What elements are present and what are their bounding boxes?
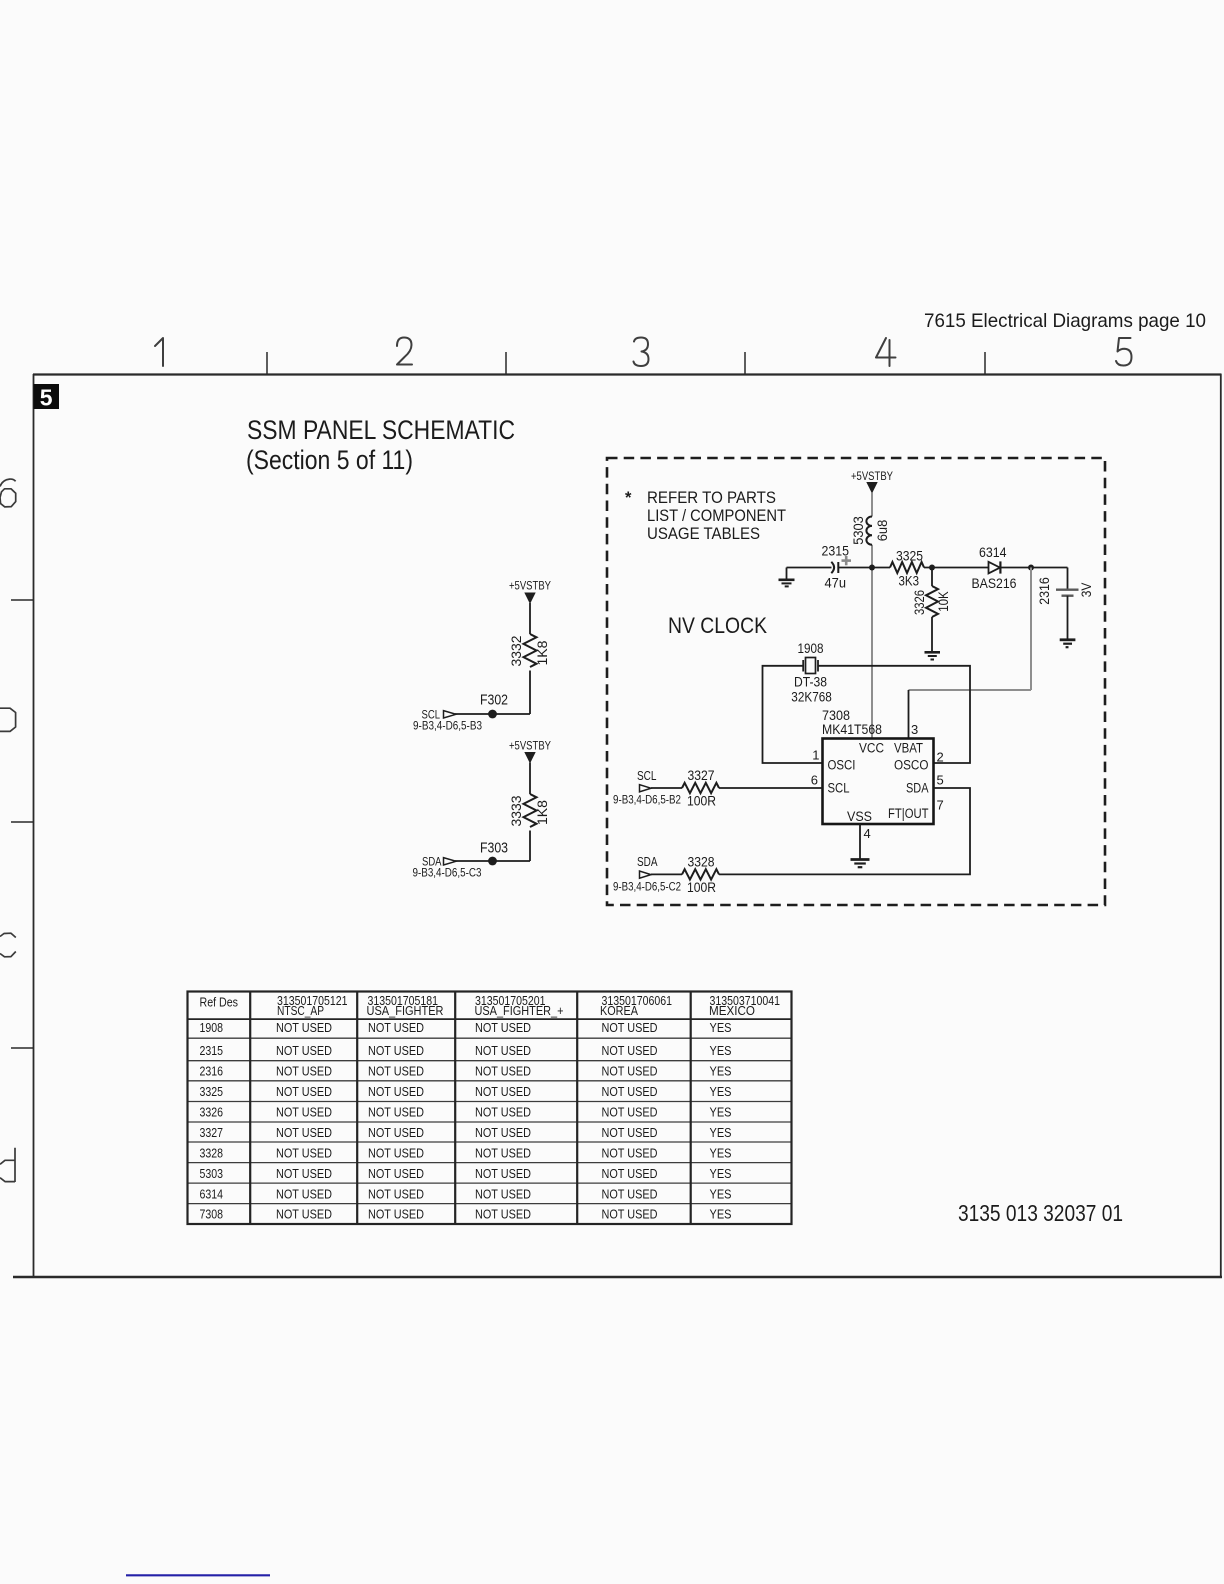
input symbol SDA (inner): [640, 871, 652, 878]
ground (left of cap 2315): [779, 568, 795, 587]
svg-text:OSCO: OSCO: [894, 758, 929, 773]
wire resistor 3333 to SDA rail: [529, 831, 531, 862]
junction F303: [488, 857, 497, 866]
svg-text:9-B3,4-D6,5-C2: 9-B3,4-D6,5-C2: [613, 882, 681, 894]
wire arrow to resistor 3332: [529, 603, 531, 634]
svg-text:NOT USED: NOT USED: [276, 1126, 332, 1140]
svg-text:2315: 2315: [200, 1044, 224, 1058]
svg-text:NOT USED: NOT USED: [602, 1065, 658, 1079]
svg-text:DT-38: DT-38: [794, 674, 827, 690]
svg-text:NOT USED: NOT USED: [368, 1188, 424, 1202]
svg-text:YES: YES: [710, 1044, 732, 1058]
svg-text:NOT USED: NOT USED: [602, 1106, 658, 1120]
svg-text:6: 6: [811, 773, 818, 788]
power arrow +5VSTBY (F303 branch): [524, 752, 535, 764]
svg-text:10K: 10K: [936, 591, 951, 612]
svg-text:NOT USED: NOT USED: [368, 1147, 424, 1161]
svg-text:100R: 100R: [687, 879, 716, 895]
wire resistor 3332 to SCL rail: [529, 671, 531, 715]
svg-text:NOT USED: NOT USED: [602, 1167, 658, 1181]
svg-text:SCL: SCL: [637, 769, 657, 783]
svg-text:NOT USED: NOT USED: [368, 1167, 424, 1181]
svg-text:NOT USED: NOT USED: [368, 1044, 424, 1058]
svg-text:BAS216: BAS216: [972, 575, 1017, 591]
wire coil to VCC (gray): [871, 545, 873, 739]
svg-text:1908: 1908: [798, 640, 824, 656]
svg-text:YES: YES: [710, 1106, 732, 1120]
svg-text:NOT USED: NOT USED: [276, 1106, 332, 1120]
svg-text:VBAT: VBAT: [894, 741, 923, 756]
svg-text:NOT USED: NOT USED: [602, 1126, 658, 1140]
svg-text:4: 4: [864, 826, 871, 841]
TABLE: [187, 992, 792, 1225]
svg-text:NOT USED: NOT USED: [276, 1044, 332, 1058]
svg-text:SDA: SDA: [422, 855, 442, 869]
wire VBAT drop to pin 3: [908, 690, 910, 739]
svg-text:3325: 3325: [896, 548, 923, 564]
svg-text:NOT USED: NOT USED: [475, 1208, 531, 1222]
svg-text:REFER TO PARTS: REFER TO PARTS: [647, 489, 776, 507]
svg-text:VSS: VSS: [847, 809, 872, 824]
svg-text:MEXICO: MEXICO: [709, 1004, 755, 1018]
svg-text:2316: 2316: [1036, 577, 1052, 605]
svg-text:SSM PANEL SCHEMATIC: SSM PANEL SCHEMATIC: [247, 415, 515, 445]
svg-text:NOT USED: NOT USED: [368, 1126, 424, 1140]
svg-text:3325: 3325: [200, 1085, 224, 1099]
ground (below 2316): [1060, 640, 1076, 647]
svg-text:3K3: 3K3: [899, 573, 920, 589]
svg-text:*: *: [625, 489, 632, 507]
svg-text:SDA: SDA: [637, 855, 658, 869]
svg-text:+5VSTBY: +5VSTBY: [851, 471, 893, 483]
wire ground to cap 2315: [787, 567, 832, 569]
wire 3325 to diode: [924, 567, 989, 569]
svg-text:+5VSTBY: +5VSTBY: [509, 581, 551, 593]
svg-text:NOT USED: NOT USED: [368, 1106, 424, 1120]
svg-text:NTSC_AP: NTSC_AP: [277, 1004, 324, 1018]
svg-text:NOT USED: NOT USED: [475, 1188, 531, 1202]
svg-text:NOT USED: NOT USED: [276, 1208, 332, 1222]
wire VBAT horizontal (gray): [909, 689, 1032, 691]
svg-text:YES: YES: [710, 1021, 732, 1035]
svg-text:F303: F303: [480, 841, 508, 857]
svg-text:2: 2: [937, 750, 944, 765]
svg-text:7: 7: [937, 798, 944, 813]
resistor 3326: [926, 586, 938, 617]
svg-text:NOT USED: NOT USED: [602, 1208, 658, 1222]
wire diode to battery corner: [1000, 567, 1067, 569]
svg-text:NOT USED: NOT USED: [475, 1085, 531, 1099]
svg-text:9-B3,4-D6,5-B3: 9-B3,4-D6,5-B3: [413, 721, 482, 733]
svg-text:1: 1: [812, 748, 819, 763]
wire SCL horizontal (F302): [455, 713, 530, 715]
svg-text:NOT USED: NOT USED: [475, 1021, 531, 1035]
svg-text:YES: YES: [710, 1147, 732, 1161]
inductor 5303: [866, 517, 872, 545]
svg-text:5: 5: [937, 773, 944, 788]
svg-text:YES: YES: [710, 1208, 732, 1222]
svg-text:YES: YES: [710, 1065, 732, 1079]
svg-text:NOT USED: NOT USED: [602, 1085, 658, 1099]
svg-text:NOT USED: NOT USED: [368, 1065, 424, 1079]
svg-text:NOT USED: NOT USED: [276, 1188, 332, 1202]
diode 6314: [989, 561, 1001, 573]
input symbol SCL (inner): [640, 785, 652, 792]
wire crystal left loop: [763, 666, 823, 763]
svg-text:1K8: 1K8: [535, 800, 550, 825]
svg-text:NOT USED: NOT USED: [276, 1085, 332, 1099]
svg-text:NOT USED: NOT USED: [475, 1167, 531, 1181]
svg-text:FT|OUT: FT|OUT: [888, 806, 929, 821]
RULER_DIGITS: [155, 338, 1132, 367]
svg-text:32K768: 32K768: [791, 688, 832, 704]
svg-text:YES: YES: [710, 1085, 732, 1099]
junction F302: [488, 710, 497, 719]
svg-text:5303: 5303: [851, 516, 866, 545]
svg-text:3328: 3328: [200, 1147, 224, 1161]
blue underline: [126, 1574, 270, 1576]
svg-text:6314: 6314: [979, 544, 1007, 560]
svg-text:NOT USED: NOT USED: [276, 1167, 332, 1181]
svg-text:NOT USED: NOT USED: [475, 1065, 531, 1079]
capacitor 2315: [831, 562, 838, 573]
battery 2316: [1056, 590, 1079, 596]
resistor 3328: [682, 869, 719, 879]
svg-text:OSCI: OSCI: [828, 758, 856, 773]
svg-text:+5VSTBY: +5VSTBY: [509, 741, 551, 753]
wire battery to ground: [1067, 596, 1069, 639]
wire VSS to ground: [859, 824, 861, 859]
svg-text:NOT USED: NOT USED: [368, 1021, 424, 1035]
svg-text:NOT USED: NOT USED: [276, 1021, 332, 1035]
svg-text:3333: 3333: [509, 796, 524, 827]
SECTION_SQUARE: [34, 384, 60, 411]
svg-text:NOT USED: NOT USED: [602, 1147, 658, 1161]
wire arrow to resistor 3333: [529, 763, 531, 795]
svg-text:2315: 2315: [822, 543, 850, 559]
wire cap 2315 to junction: [838, 567, 890, 569]
op IC 7308 MK41T568: [823, 739, 934, 825]
svg-text:Ref Des: Ref Des: [200, 996, 239, 1010]
svg-text:3326: 3326: [200, 1106, 224, 1120]
svg-text:1K8: 1K8: [535, 641, 550, 666]
power arrow +5VSTBY (F302 branch): [524, 593, 535, 605]
svg-text:USAGE TABLES: USAGE TABLES: [647, 525, 760, 543]
svg-text:5303: 5303: [200, 1167, 224, 1181]
svg-text:7308: 7308: [200, 1208, 224, 1222]
svg-text:F302: F302: [480, 693, 508, 709]
svg-text:NOT USED: NOT USED: [276, 1147, 332, 1161]
svg-text:9-B3,4-D6,5-C3: 9-B3,4-D6,5-C3: [413, 868, 482, 880]
resistor 3327: [682, 783, 719, 793]
svg-text:6u8: 6u8: [875, 520, 890, 542]
svg-text:KOREA: KOREA: [600, 1004, 639, 1018]
wire 3328 to pin 5: [719, 788, 970, 874]
DASHED_BOX: [607, 458, 1105, 905]
svg-text:2316: 2316: [200, 1065, 224, 1079]
wire to battery 2316: [1067, 568, 1069, 590]
PAGE_HEADER: [924, 310, 1206, 332]
svg-text:6314: 6314: [200, 1188, 224, 1202]
svg-text:MK41T568: MK41T568: [822, 721, 882, 737]
svg-text:NOT USED: NOT USED: [602, 1044, 658, 1058]
svg-text:3V: 3V: [1078, 582, 1094, 597]
svg-text:3327: 3327: [688, 767, 715, 783]
plus sign of 2315: [842, 556, 852, 565]
svg-text:(Section 5 of 11): (Section 5 of 11): [246, 445, 413, 475]
svg-text:NOT USED: NOT USED: [475, 1147, 531, 1161]
wire 3327 to pin 6: [719, 787, 823, 789]
svg-text:NOT USED: NOT USED: [368, 1085, 424, 1099]
svg-text:1908: 1908: [200, 1021, 224, 1035]
svg-text:SDA: SDA: [906, 781, 929, 796]
wire SDA horizontal (F303): [455, 860, 530, 862]
svg-text:3328: 3328: [688, 854, 715, 870]
wire VBAT vertical (gray): [1030, 568, 1032, 691]
crystal 1908: [803, 658, 818, 674]
svg-text:YES: YES: [710, 1188, 732, 1202]
resistor 3332: [524, 634, 537, 667]
svg-text:3326: 3326: [912, 590, 927, 615]
svg-text:7615 Electrical Diagrams page: 7615 Electrical Diagrams page 10: [924, 310, 1206, 332]
svg-text:NOT USED: NOT USED: [475, 1044, 531, 1058]
NOTE: [625, 489, 786, 543]
svg-text:100R: 100R: [687, 793, 716, 809]
wire +5VSTBY rail to VCC (gray): [871, 493, 873, 517]
wire SDA in to 3328: [651, 873, 682, 875]
svg-text:VCC: VCC: [859, 741, 884, 756]
svg-text:YES: YES: [710, 1126, 732, 1140]
junction 3326 top: [929, 565, 935, 571]
svg-text:3332: 3332: [509, 636, 524, 667]
resistor 3333: [524, 794, 537, 827]
svg-text:NOT USED: NOT USED: [475, 1106, 531, 1120]
wire SCL in to 3327: [651, 787, 682, 789]
wire junction to resistor 3326: [931, 568, 933, 587]
svg-text:3135 013 32037 01: 3135 013 32037 01: [958, 1200, 1123, 1226]
svg-text:9-B3,4-D6,5-B2: 9-B3,4-D6,5-B2: [613, 795, 681, 807]
svg-text:USA_FIGHTER_+: USA_FIGHTER_+: [475, 1004, 564, 1018]
svg-text:3327: 3327: [200, 1126, 224, 1140]
svg-text:USA_FIGHTER: USA_FIGHTER: [367, 1004, 444, 1018]
wire 3326 to ground: [931, 617, 933, 652]
TITLE: [246, 415, 515, 475]
svg-text:NOT USED: NOT USED: [368, 1208, 424, 1222]
svg-text:LIST / COMPONENT: LIST / COMPONENT: [647, 507, 786, 525]
margin grid letters (partially cut): [0, 479, 16, 1182]
svg-text:NOT USED: NOT USED: [602, 1021, 658, 1035]
resistor 3325: [890, 562, 924, 573]
CIRCUIT: [413, 471, 1095, 895]
svg-text:SCL: SCL: [828, 781, 850, 796]
input symbol SDA (outer): [444, 858, 457, 865]
ground (VSS): [851, 860, 870, 868]
svg-text:5: 5: [40, 385, 53, 411]
svg-text:3: 3: [911, 722, 918, 737]
wire crystal right loop: [818, 666, 970, 763]
svg-text:NOT USED: NOT USED: [276, 1065, 332, 1079]
junction VBAT: [1028, 565, 1034, 571]
input symbol SCL (outer): [444, 711, 457, 718]
svg-text:SCL: SCL: [422, 708, 441, 722]
svg-text:NV CLOCK: NV CLOCK: [668, 613, 767, 638]
ground (below 3326): [925, 652, 941, 659]
svg-text:47u: 47u: [825, 575, 847, 591]
junction rail/+5V: [869, 565, 875, 571]
svg-text:NOT USED: NOT USED: [475, 1126, 531, 1140]
svg-text:YES: YES: [710, 1167, 732, 1181]
svg-text:NOT USED: NOT USED: [602, 1188, 658, 1202]
power arrow +5VSTBY (NV clock): [866, 482, 877, 494]
